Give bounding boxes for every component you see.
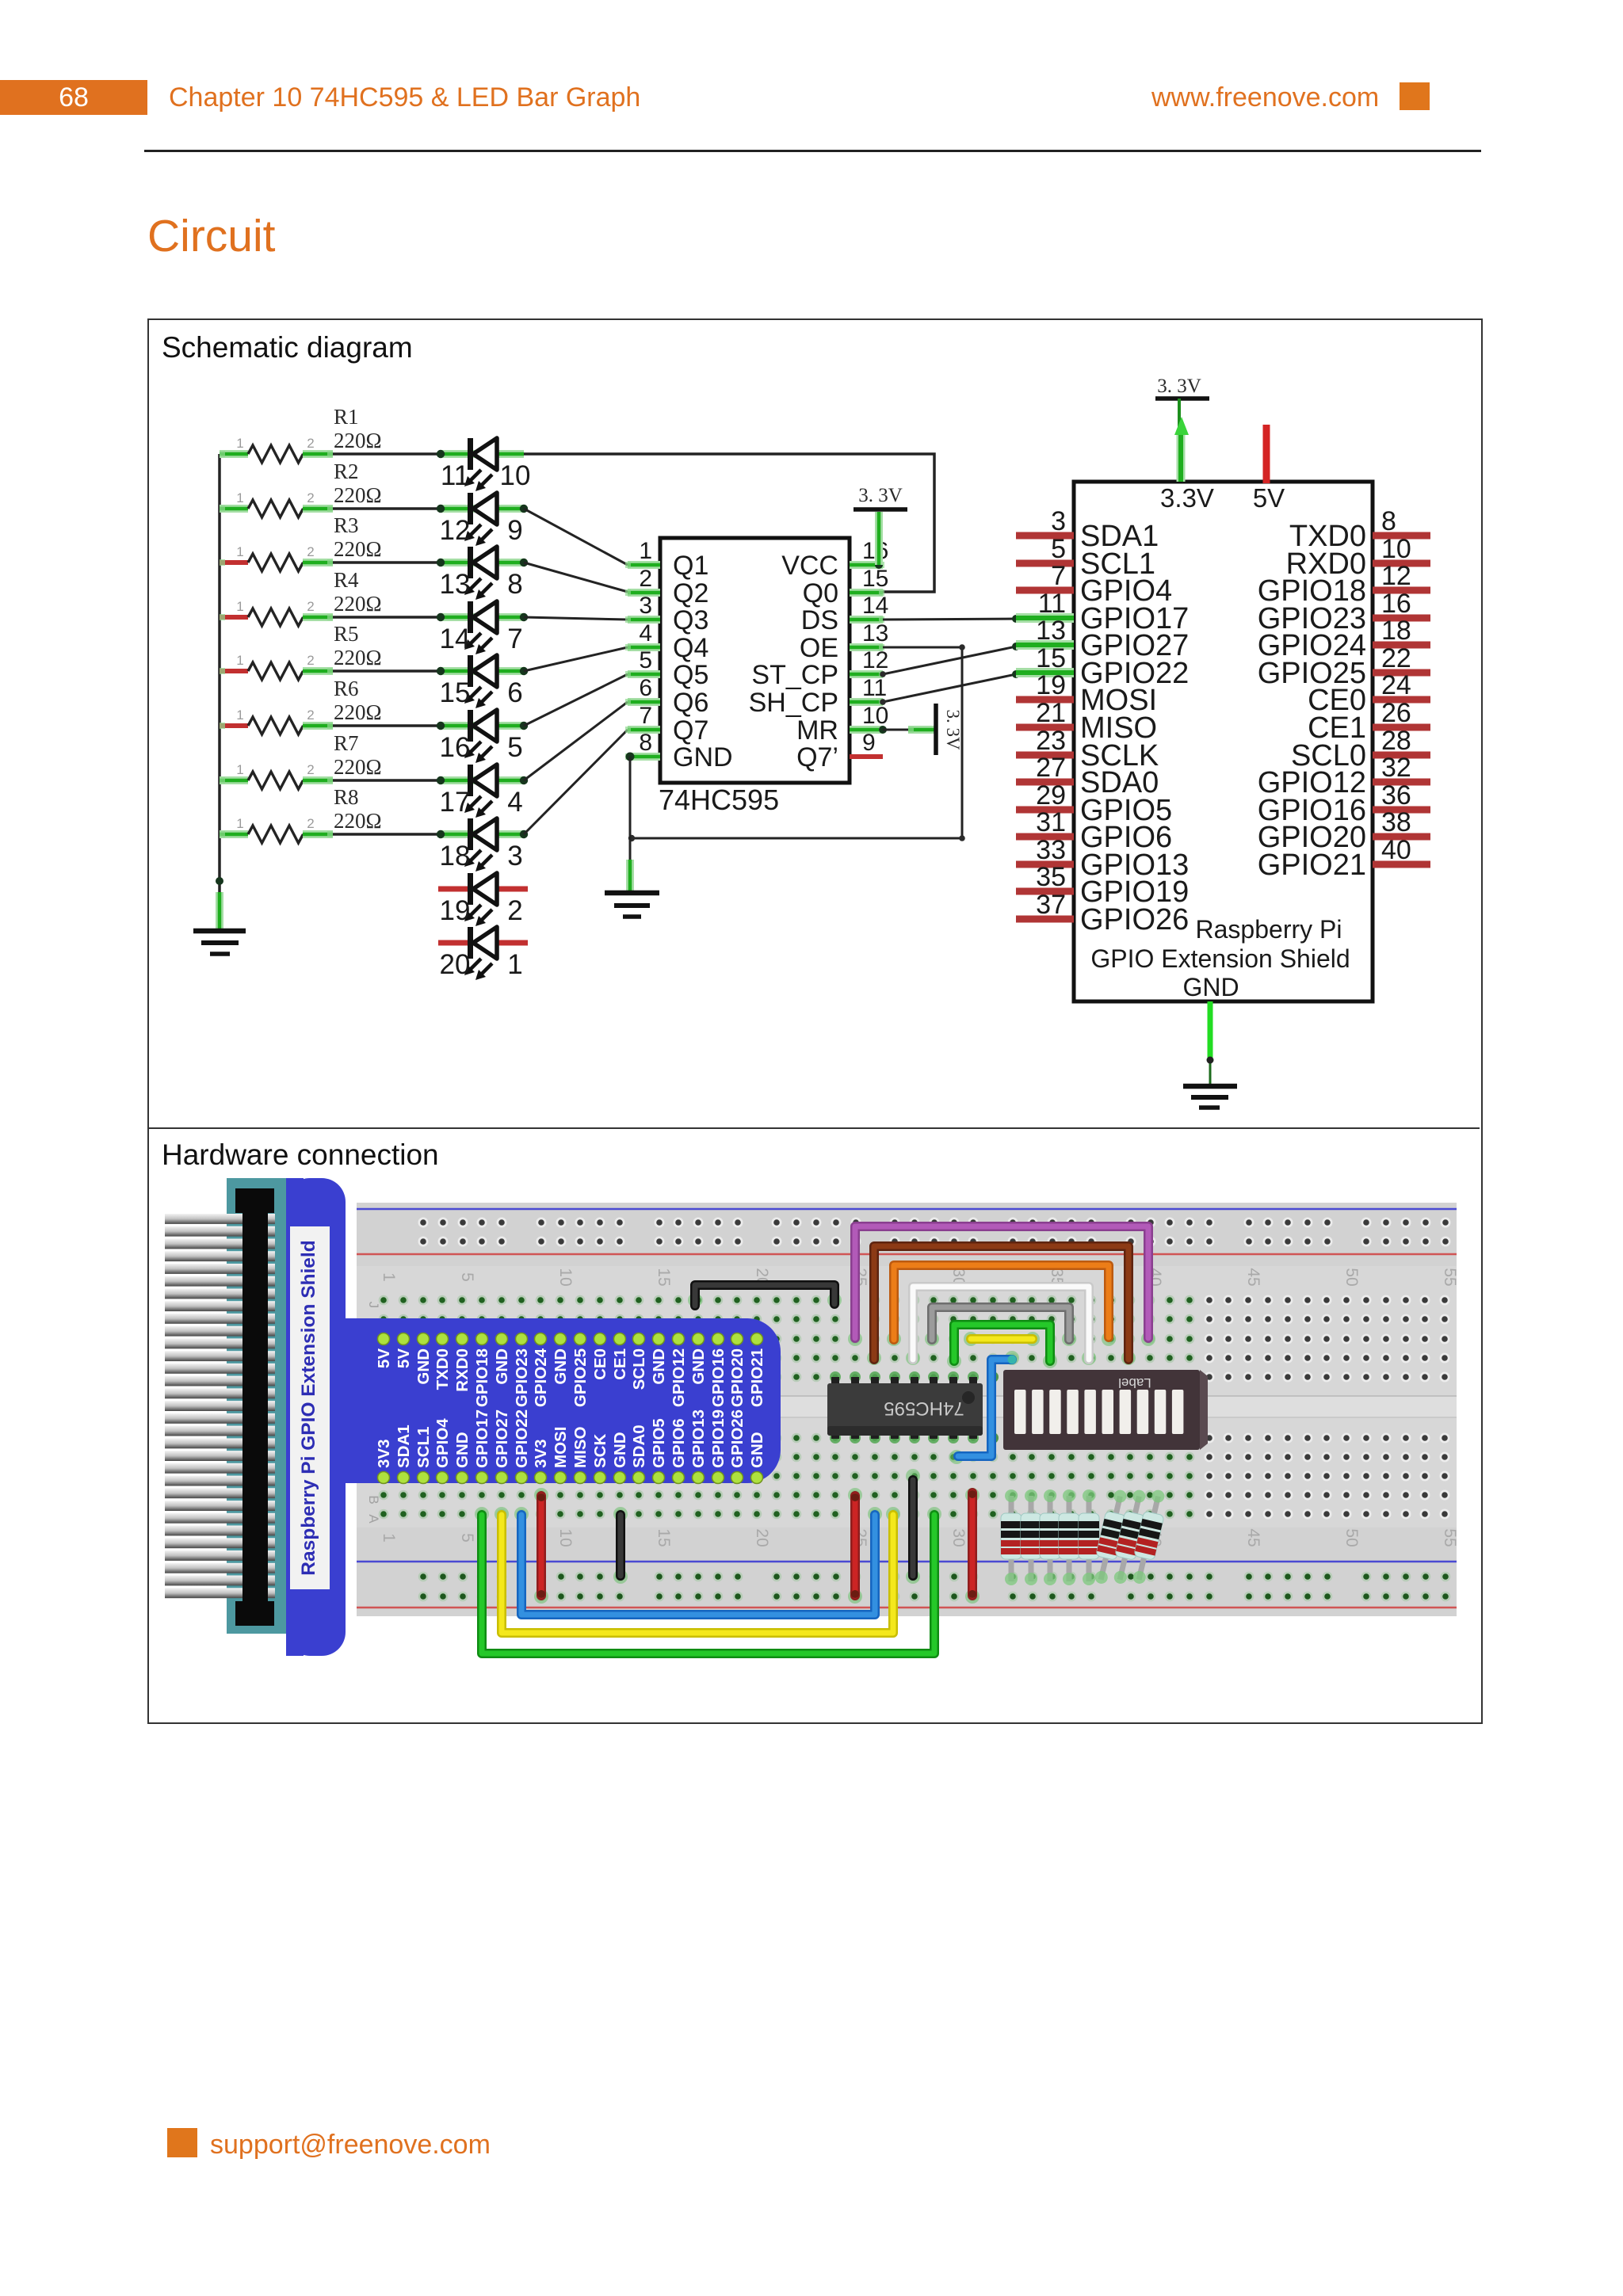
RPi pin 7 GPIO4 <box>1016 561 1172 608</box>
junction right of LED4 <box>520 776 528 784</box>
LED bar-graph segment pins 15/6 <box>464 655 497 708</box>
svg-text:Q7’: Q7’ <box>796 742 838 772</box>
RPi pin 8 TXD0 <box>1289 506 1430 553</box>
wire RPi GND to ground (green) <box>1208 1001 1213 1085</box>
U1 pin 13 OE <box>800 620 889 663</box>
wire LED row to Q2 <box>524 563 628 592</box>
svg-text:9: 9 <box>862 730 876 756</box>
RPi pin 22 GPIO25 <box>1258 643 1430 690</box>
svg-text:ST_CP: ST_CP <box>751 660 838 690</box>
U1 pin 4 Q4 <box>625 620 708 663</box>
U1 pin 9 Q7&#8217; <box>796 730 883 772</box>
svg-text:1: 1 <box>639 538 652 564</box>
svg-text:1: 1 <box>507 949 522 980</box>
jumper wire yellow (bottom loop) <box>502 1515 893 1633</box>
svg-text:23: 23 <box>1036 726 1066 756</box>
LED bar-graph segment pins 20/1 <box>464 927 497 980</box>
svg-text:16: 16 <box>440 732 471 763</box>
junction GND pin8 <box>626 753 635 761</box>
svg-text:12: 12 <box>1381 561 1411 591</box>
junction node LED row 5 <box>437 668 444 674</box>
svg-text:DS: DS <box>801 605 838 635</box>
svg-text:220Ω: 220Ω <box>334 700 382 724</box>
resistor R6 220Ω <box>220 707 333 734</box>
RPi pin 40 GPIO21 <box>1258 835 1430 882</box>
svg-text:5V: 5V <box>395 1348 413 1368</box>
svg-text:11: 11 <box>441 460 469 491</box>
svg-text:GPIO19: GPIO19 <box>709 1409 727 1468</box>
pin number labels LED 19/2 <box>440 895 523 926</box>
svg-text:13: 13 <box>440 569 471 600</box>
junction node LED row 4 <box>437 614 444 620</box>
Raspberry Pi GPIO Extension Shield (T-board) <box>286 1178 781 1656</box>
svg-text:SDA1: SDA1 <box>395 1425 413 1468</box>
wire SH_CP to GPIO22 <box>883 674 1016 702</box>
svg-text:OE: OE <box>800 633 838 663</box>
resistor R2 220Ω <box>220 490 333 517</box>
svg-text:50: 50 <box>1342 1268 1361 1286</box>
svg-text:32: 32 <box>1381 753 1411 783</box>
RPi pin 32 GPIO12 <box>1258 753 1430 799</box>
LED bar-graph segment pins 12/9 <box>464 493 497 546</box>
svg-text:15: 15 <box>862 566 888 592</box>
svg-text:GPIO16: GPIO16 <box>709 1348 727 1407</box>
jumper wire gray <box>932 1307 1069 1340</box>
svg-text:GPIO24: GPIO24 <box>532 1348 550 1407</box>
junction left of LED12 <box>437 505 445 513</box>
header site <box>1151 82 1379 113</box>
svg-text:GPIO12: GPIO12 <box>670 1348 688 1407</box>
U1 pin 10 MR <box>796 703 888 746</box>
jumper wire orange <box>894 1265 1109 1340</box>
pin number labels LED 12/9 <box>440 515 523 546</box>
pin number labels LED 20/1 <box>440 949 523 980</box>
svg-text:220Ω: 220Ω <box>334 592 382 616</box>
junction on bus <box>216 877 223 885</box>
svg-text:2: 2 <box>307 762 314 777</box>
svg-text:A: A <box>366 1514 381 1524</box>
svg-text:10: 10 <box>862 703 888 729</box>
junction node LED row 2 <box>437 505 444 512</box>
svg-text:5: 5 <box>458 1272 476 1282</box>
svg-text:36: 36 <box>1381 780 1411 810</box>
header rule <box>144 150 1481 152</box>
wire stub LED18/3 <box>441 830 524 838</box>
svg-text:19: 19 <box>1036 670 1066 700</box>
wire R5 to LED <box>333 669 441 673</box>
svg-text:Q4: Q4 <box>673 633 708 663</box>
74HC595 U1 body <box>660 538 850 783</box>
RPi pin 19 MOSI <box>1016 670 1157 717</box>
value label R5 220Ω <box>334 622 382 669</box>
svg-text:6: 6 <box>507 677 522 708</box>
svg-text:GPIO20: GPIO20 <box>728 1348 747 1407</box>
svg-text:GND: GND <box>748 1432 766 1468</box>
wire DS to GPIO17 <box>883 619 1016 620</box>
svg-text:3V3: 3V3 <box>532 1440 550 1468</box>
resistor R1 220Ω <box>220 436 333 463</box>
resistor R7 220Ω <box>220 762 333 789</box>
svg-text:28: 28 <box>1381 726 1411 756</box>
RPi pin 23 SCLK <box>1016 726 1159 772</box>
RPi pin 28 SCL0 <box>1291 726 1430 772</box>
svg-text:5: 5 <box>458 1533 476 1543</box>
value label R6 220Ω <box>334 677 382 724</box>
svg-text:SCL0: SCL0 <box>630 1348 648 1390</box>
svg-text:220Ω: 220Ω <box>334 483 382 507</box>
junction MR pin10 <box>879 726 887 734</box>
RPi pin 24 CE0 <box>1308 670 1430 717</box>
svg-text:2: 2 <box>307 707 314 723</box>
svg-text:1: 1 <box>236 762 243 777</box>
junction right of LED9 <box>520 505 528 513</box>
svg-text:Q6: Q6 <box>673 688 708 718</box>
wire LED row to Q3 <box>524 617 628 620</box>
RPi pin 31 GPIO6 <box>1016 807 1172 854</box>
pin number labels LED 14/7 <box>440 624 523 654</box>
junction node LED row 1 <box>437 451 444 457</box>
svg-text:45: 45 <box>1244 1268 1262 1286</box>
svg-text:GND: GND <box>453 1432 472 1468</box>
svg-text:7: 7 <box>507 624 522 654</box>
power symbol 3.3V (above U1) <box>854 485 907 509</box>
svg-text:220Ω: 220Ω <box>334 537 382 561</box>
header orange square <box>1400 82 1430 110</box>
jumper wire blue (to chip) <box>958 1360 1012 1456</box>
svg-text:220Ω: 220Ω <box>334 646 382 669</box>
wire LED10 to Q0 (top loop) <box>524 454 934 592</box>
svg-text:3V3: 3V3 <box>375 1440 393 1468</box>
wire 3.3V to RPi box (green) <box>1174 399 1189 482</box>
value label R2 220Ω <box>334 460 382 507</box>
svg-text:3: 3 <box>1051 506 1066 536</box>
svg-text:2: 2 <box>307 816 314 831</box>
svg-text:26: 26 <box>1381 698 1411 728</box>
wire R6 to LED <box>333 724 441 727</box>
svg-text:21: 21 <box>1036 698 1066 728</box>
svg-text:Q7: Q7 <box>673 715 708 746</box>
svg-text:5V: 5V <box>1253 483 1285 513</box>
jumper wire yellow (short) <box>971 1334 1033 1344</box>
svg-text:1: 1 <box>236 653 243 668</box>
value label R7 220Ω <box>334 731 382 779</box>
svg-text:20: 20 <box>440 949 471 980</box>
wire OE to ground net <box>632 647 962 838</box>
stub LED20/1 (unconnected) <box>438 940 528 946</box>
svg-text:SCL1: SCL1 <box>414 1427 433 1468</box>
svg-text:17: 17 <box>440 787 471 818</box>
svg-text:12: 12 <box>440 515 471 546</box>
U1 pin 16 VCC <box>781 538 888 581</box>
svg-text:10: 10 <box>500 460 531 491</box>
svg-text:11: 11 <box>862 675 887 701</box>
pin number labels LED 18/3 <box>440 841 523 871</box>
svg-text:5: 5 <box>507 732 522 763</box>
svg-text:33: 33 <box>1036 835 1066 865</box>
U1 pin 15 Q0 <box>803 566 889 608</box>
RPi pin 26 CE1 <box>1308 698 1430 745</box>
wire R4 to LED <box>333 616 441 619</box>
RPi pin 13 GPIO27 <box>1016 616 1189 662</box>
svg-text:8: 8 <box>639 730 652 756</box>
svg-text:GPIO17: GPIO17 <box>473 1409 491 1468</box>
value label R1 220Ω <box>334 405 382 452</box>
wire ST_CP to GPIO27 <box>883 646 1016 674</box>
wire stub LED15/6 <box>441 667 524 675</box>
junction RPi ground wire <box>1207 1057 1214 1064</box>
junction OE bottom corner <box>959 835 965 841</box>
junction left of LED16 <box>437 722 445 730</box>
svg-text:MOSI: MOSI <box>552 1427 570 1468</box>
pin number labels LED 15/6 <box>440 677 523 708</box>
svg-text:Q2: Q2 <box>673 578 708 608</box>
U1 pin 5 Q5 <box>625 647 708 690</box>
ribbon cable <box>165 1178 286 1634</box>
U1 pin 12 ST_CP <box>751 647 888 690</box>
jumper wire brown <box>874 1246 1128 1360</box>
footer orange square <box>167 2128 197 2157</box>
RPi pin 21 MISO <box>1016 698 1157 745</box>
U1 pin 2 Q2 <box>625 566 708 608</box>
jumper wire red (col 25) <box>850 1496 860 1596</box>
svg-text:SH_CP: SH_CP <box>749 688 838 718</box>
svg-text:18: 18 <box>1381 616 1411 646</box>
svg-text:1: 1 <box>380 1533 398 1543</box>
ground (left, LED common) <box>193 931 246 954</box>
wire LED row to Q7 <box>524 730 628 834</box>
svg-text:CE0: CE0 <box>591 1348 609 1380</box>
wire stub LED17/4 <box>441 776 524 784</box>
svg-text:1: 1 <box>380 1272 398 1282</box>
jumper wire green (top) <box>954 1325 1050 1361</box>
junction left of LED13 <box>437 559 445 566</box>
wire stub LED13/8 <box>441 559 524 566</box>
svg-text:3. 3V: 3. 3V <box>943 709 963 750</box>
svg-text:2: 2 <box>507 895 522 926</box>
U1 pin 6 Q6 <box>625 675 708 718</box>
svg-text:Q0: Q0 <box>803 578 838 608</box>
RPi pin 37 GPIO26 <box>1016 890 1189 936</box>
junction GPIO22 lead <box>1012 670 1020 678</box>
LED bar-graph segment pins 16/5 <box>464 710 497 763</box>
svg-text:R7: R7 <box>334 731 359 755</box>
svg-text:15: 15 <box>1036 643 1066 673</box>
connection pads (wire entries) <box>475 1293 1155 1604</box>
resistors R1-R5 (breadboard, upright) <box>1001 1489 1099 1585</box>
svg-text:40: 40 <box>1381 835 1411 865</box>
RPi pin 18 GPIO24 <box>1258 616 1430 662</box>
wire LED row to Q1 <box>524 509 628 565</box>
svg-text:30: 30 <box>949 1528 968 1547</box>
svg-text:50: 50 <box>1342 1528 1361 1547</box>
wire stub LED16/5 <box>441 722 524 730</box>
svg-text:4: 4 <box>507 787 522 818</box>
svg-text:GPIO22: GPIO22 <box>513 1409 531 1468</box>
svg-text:3. 3V: 3. 3V <box>1157 376 1201 397</box>
power symbol 3.3V (right of MR) <box>936 704 963 755</box>
RPi pin 36 GPIO16 <box>1258 780 1430 827</box>
svg-text:Q3: Q3 <box>673 605 708 635</box>
resistors R6-R8 (breadboard, tilted) <box>1090 1488 1170 1586</box>
svg-text:74HC595: 74HC595 <box>659 784 779 816</box>
junction left of LED11 <box>437 450 445 458</box>
svg-text:GND: GND <box>493 1348 511 1385</box>
svg-text:GND: GND <box>552 1348 570 1385</box>
junction left of LED14 <box>437 613 445 621</box>
power symbol 3.3V (above RPi box) <box>1155 376 1209 399</box>
wire LED row to Q5 <box>524 674 628 726</box>
svg-text:GND: GND <box>611 1432 629 1468</box>
title Circuit <box>147 210 276 262</box>
svg-text:B: B <box>366 1495 381 1504</box>
svg-text:220Ω: 220Ω <box>334 755 382 779</box>
junction GPIO17 lead <box>1012 615 1020 623</box>
svg-text:GND: GND <box>414 1348 433 1385</box>
U1 pin 14 DS <box>801 593 889 635</box>
svg-text:GPIO4: GPIO4 <box>433 1418 452 1468</box>
svg-text:GPIO23: GPIO23 <box>513 1348 531 1407</box>
svg-text:11: 11 <box>1038 589 1066 619</box>
svg-text:24: 24 <box>1381 670 1411 700</box>
resistor R5 220Ω <box>220 653 333 680</box>
svg-text:R4: R4 <box>334 568 359 592</box>
svg-text:GND: GND <box>650 1348 668 1385</box>
svg-text:7: 7 <box>639 703 652 729</box>
RPi pin 29 GPIO5 <box>1016 780 1172 827</box>
wire: bus to ground (green) <box>216 892 223 929</box>
svg-text:8: 8 <box>1381 506 1396 536</box>
junction OE corner <box>959 644 965 650</box>
value label R8 220Ω <box>334 785 382 833</box>
shield pins and labels <box>375 1333 766 1484</box>
breadboard <box>357 1203 1457 1616</box>
junction GPIO27 lead <box>1012 643 1020 650</box>
ground (RPi GND) <box>1183 1086 1237 1108</box>
svg-text:3: 3 <box>507 841 522 871</box>
wire 5V stub (red) <box>1263 425 1270 483</box>
svg-text:14: 14 <box>440 624 471 654</box>
svg-text:GND: GND <box>1182 973 1239 1001</box>
svg-text:10: 10 <box>1381 534 1411 564</box>
junction on GND wire <box>628 835 635 841</box>
LED bar-graph segment pins 11/10 <box>464 438 497 491</box>
svg-text:GND: GND <box>689 1348 708 1385</box>
RPi pin 16 GPIO23 <box>1258 589 1430 635</box>
svg-text:12: 12 <box>862 647 888 673</box>
svg-text:220Ω: 220Ω <box>334 809 382 833</box>
svg-text:GPIO27: GPIO27 <box>493 1409 511 1468</box>
header chapter title <box>169 82 640 113</box>
junction right of LED7 <box>520 613 528 621</box>
svg-text:3.3V: 3.3V <box>1160 483 1214 513</box>
svg-text:9: 9 <box>507 515 522 546</box>
wire LED row to Q4 <box>524 647 628 671</box>
svg-text:15: 15 <box>440 677 471 708</box>
svg-text:27: 27 <box>1036 753 1066 783</box>
svg-text:SDA0: SDA0 <box>630 1425 648 1468</box>
wire stub LED11/10 <box>441 450 524 458</box>
svg-text:GPIO26: GPIO26 <box>1080 903 1189 936</box>
svg-text:22: 22 <box>1381 643 1411 673</box>
LED bar-graph segment pins 13/8 <box>464 547 497 600</box>
U1 pin 1 Q1 <box>625 538 708 581</box>
svg-text:1: 1 <box>236 544 243 559</box>
svg-text:45: 45 <box>1244 1528 1262 1547</box>
svg-text:38: 38 <box>1381 807 1411 837</box>
U1 pin 11 SH_CP <box>749 675 888 718</box>
resistor R4 220Ω <box>220 599 333 626</box>
jumper wire red (col 9) <box>537 1496 546 1596</box>
svg-text:35: 35 <box>1036 862 1066 892</box>
junction VCC pin16 <box>875 561 883 569</box>
svg-text:2: 2 <box>307 653 314 668</box>
pin number labels LED 13/8 <box>440 569 523 600</box>
RPi pin 10 RXD0 <box>1286 534 1430 581</box>
outer box <box>147 318 1483 1724</box>
LED bar graph (breadboard) <box>987 1370 1208 1450</box>
svg-text:55: 55 <box>1441 1268 1459 1286</box>
svg-text:Raspberry Pi GPIO Extension Sh: Raspberry Pi GPIO Extension Shield <box>298 1240 319 1575</box>
LED bar-graph segment pins 19/2 <box>464 873 497 926</box>
svg-text:R6: R6 <box>334 677 359 700</box>
RPi pin 38 GPIO20 <box>1258 807 1430 854</box>
svg-text:2: 2 <box>307 544 314 559</box>
svg-text:RXD0: RXD0 <box>453 1348 472 1392</box>
resistor R3 220Ω <box>220 544 333 571</box>
footer email <box>210 2130 491 2161</box>
svg-text:VCC: VCC <box>781 551 838 581</box>
svg-text:1: 1 <box>236 707 243 723</box>
svg-text:Q1: Q1 <box>673 551 708 581</box>
svg-text:GPIO21: GPIO21 <box>748 1348 766 1407</box>
wire R3 to LED <box>333 561 441 564</box>
ground (U1 GND) <box>605 893 659 917</box>
value label R3 220Ω <box>334 513 382 561</box>
resistor R8 220Ω <box>220 816 333 843</box>
wire GND pin to ground <box>629 757 632 891</box>
svg-text:GND: GND <box>673 742 733 772</box>
pin number labels LED 17/4 <box>440 787 523 818</box>
svg-text:20: 20 <box>753 1528 771 1547</box>
RPi pin 15 GPIO22 <box>1016 643 1189 690</box>
svg-text:GPIO6: GPIO6 <box>670 1418 688 1468</box>
junction right of LED6 <box>520 667 528 675</box>
junction ST_CP stub <box>880 671 886 677</box>
svg-text:1: 1 <box>236 816 243 831</box>
svg-text:TXD0: TXD0 <box>433 1348 452 1390</box>
junction node LED row 3 <box>437 559 444 566</box>
svg-text:10: 10 <box>556 1268 575 1286</box>
junction left of LED15 <box>437 667 445 675</box>
jumper wire red (col 31) <box>968 1493 977 1596</box>
svg-text:Label: Label <box>1118 1375 1151 1390</box>
74HC595 chip (breadboard) <box>827 1371 983 1444</box>
svg-text:Raspberry Pi: Raspberry Pi <box>1196 915 1342 944</box>
wire R7 to LED <box>333 779 441 782</box>
svg-text:J: J <box>366 1302 381 1309</box>
svg-text:18: 18 <box>440 841 471 871</box>
svg-text:SCK: SCK <box>591 1434 609 1468</box>
svg-text:19: 19 <box>440 895 471 926</box>
svg-text:R3: R3 <box>334 513 359 537</box>
junction right of LED3 <box>520 830 528 838</box>
svg-text:2: 2 <box>307 599 314 614</box>
junction right of LED8 <box>520 559 528 566</box>
junction right of LED5 <box>520 722 528 730</box>
wire MR to 3.3V <box>883 727 936 733</box>
pin number labels LED 16/5 <box>440 732 523 763</box>
svg-text:6: 6 <box>639 675 652 701</box>
